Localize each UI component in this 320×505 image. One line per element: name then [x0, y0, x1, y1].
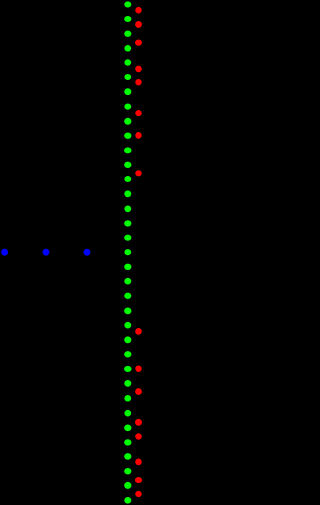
- green dot G13: [124, 176, 131, 182]
- red dot R3: [135, 39, 142, 45]
- green dot G11: [124, 147, 131, 153]
- green dot G10: [124, 133, 131, 139]
- green dot G24: [124, 336, 131, 343]
- red dot R12: [135, 419, 142, 426]
- green dot G8: [124, 103, 131, 109]
- green dot G2: [124, 16, 131, 22]
- red dot R15: [135, 477, 142, 483]
- green dot G4: [124, 45, 131, 52]
- green dot G18: [124, 249, 131, 255]
- red dot R9: [135, 328, 142, 335]
- green dot G12: [124, 162, 131, 168]
- green dot G33: [124, 468, 131, 474]
- green dot G5: [124, 59, 131, 65]
- red dot R6: [135, 110, 141, 116]
- green dot G19: [124, 264, 131, 270]
- blue dot B2: [43, 249, 50, 256]
- red dot R11: [135, 388, 142, 395]
- red dot R4: [135, 66, 142, 73]
- green dot G30: [124, 425, 131, 432]
- green dot G22: [124, 308, 131, 315]
- red dot R7: [135, 132, 141, 139]
- green dot G7: [124, 88, 131, 95]
- green dot G35: [124, 497, 131, 504]
- green dot G3: [124, 31, 131, 37]
- blue dot B1: [1, 249, 8, 256]
- red dot R16: [135, 491, 141, 497]
- green dot G1: [124, 1, 131, 7]
- green dot G26: [124, 366, 131, 372]
- red dot R10: [135, 366, 141, 372]
- green dot G15: [124, 206, 131, 213]
- green dot G25: [124, 351, 131, 357]
- blue dot B3: [84, 249, 91, 256]
- green dot G31: [124, 439, 131, 445]
- green dot G23: [124, 322, 131, 329]
- green dot G14: [124, 190, 131, 197]
- green dot G28: [124, 395, 131, 401]
- green dot G6: [124, 74, 131, 80]
- green dot G17: [124, 235, 131, 241]
- green dot G21: [124, 293, 131, 299]
- red dot R14: [135, 459, 142, 466]
- green dot G9: [124, 118, 131, 125]
- green dot G20: [124, 278, 131, 285]
- red dot R8: [135, 170, 141, 176]
- red dot R2: [135, 21, 142, 28]
- red dot R1: [135, 7, 141, 14]
- green dot G32: [124, 453, 131, 460]
- red dot R13: [135, 433, 142, 439]
- green dot G16: [124, 220, 131, 226]
- green dot G29: [124, 410, 131, 417]
- red dot R5: [135, 79, 141, 85]
- green dot G27: [124, 380, 131, 387]
- green dot G34: [124, 482, 131, 489]
